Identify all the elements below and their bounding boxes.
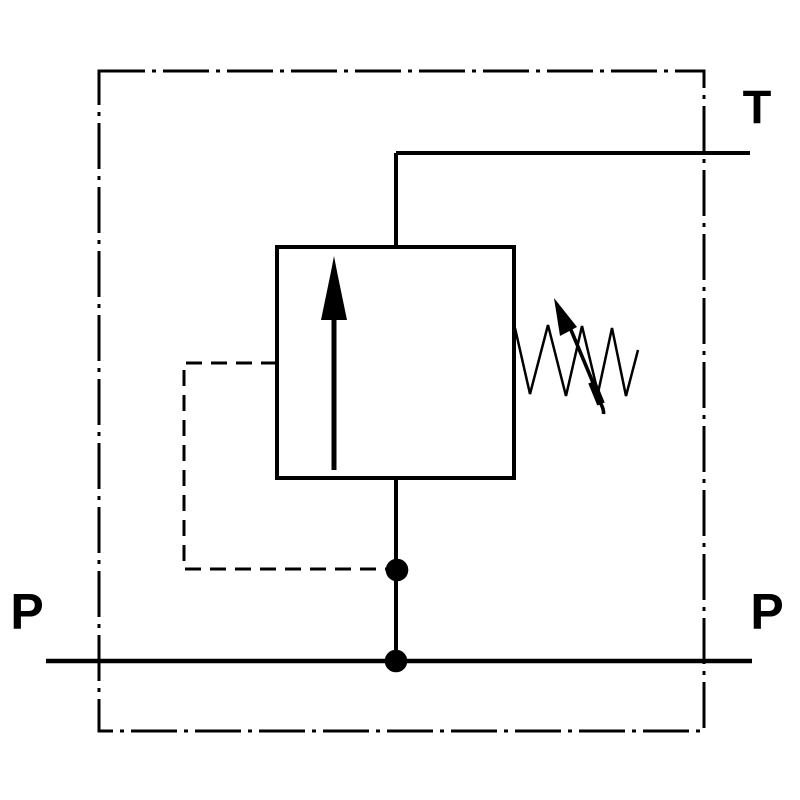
enclosure boundary (subplate outline, dash-dot) [99,71,704,731]
pilot line (dashed) from valve to node A [184,363,392,569]
valve V1 envelope (square body) [277,247,514,478]
spring (pressure setting spring) [515,325,638,396]
svg-text:T: T [743,81,772,134]
wire from valve top to T line [394,153,398,249]
adjustment arrow across spring [554,298,604,414]
wire T line (horizontal tank line) [396,151,750,155]
port label T [743,81,772,134]
wire P line (horizontal pressure line) [46,659,752,663]
svg-text:P: P [10,584,43,640]
port label P (left) [10,584,43,640]
node A (pilot junction dot) [386,559,409,582]
wire from valve bottom to P line [394,478,398,661]
flow path arrow inside valve [321,256,347,470]
svg-text:P: P [750,584,783,640]
port label P (right) [750,584,783,640]
node B (P line junction dot) [385,650,408,673]
